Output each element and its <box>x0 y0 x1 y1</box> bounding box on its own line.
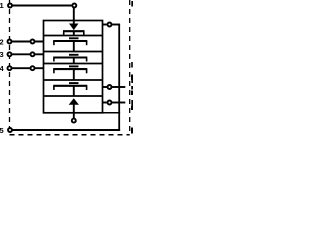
ground pad circle below die <box>72 119 76 123</box>
wire stub pin7 <box>103 86 108 88</box>
pin 4 terminal <box>8 66 12 70</box>
package dashed border bottom <box>10 134 130 136</box>
wire pin5 bottom <box>13 129 121 131</box>
wire pin3 <box>12 53 44 55</box>
diode D5 cell5 plate <box>53 83 87 96</box>
wire right bus vertical <box>118 25 120 131</box>
node bond pad pin3 <box>31 52 35 56</box>
wire pin2 <box>12 41 44 43</box>
die row divider 1 <box>44 35 103 37</box>
wire stub pin8 <box>103 24 108 26</box>
wire stub pin6 <box>103 102 108 104</box>
package dashed border left <box>9 0 11 135</box>
node bond pad pin2 <box>31 40 35 44</box>
die row divider 4 <box>44 79 103 81</box>
node bond pad pin8 <box>108 23 112 27</box>
wire ground rail to bus <box>103 112 121 114</box>
die row divider 2 <box>44 51 103 53</box>
node bond pad pin4 <box>31 66 35 70</box>
node bond pad pin6 <box>108 101 112 105</box>
diode D4 cell4 plate <box>53 66 87 80</box>
diode D3 cell3 plate <box>53 55 87 64</box>
wire pin1 top <box>13 4 72 6</box>
wire pin4 <box>12 67 44 69</box>
wire pin8 to bus <box>112 24 120 26</box>
svg-text:1: 1 <box>0 1 4 10</box>
diode D1 cell1 arrow down <box>63 24 85 36</box>
pin 1 terminal <box>8 4 12 8</box>
svg-text:5: 5 <box>0 126 4 135</box>
node bond pad pin7 <box>108 85 112 89</box>
wire pin6 to bus <box>112 102 125 104</box>
die box outline <box>44 21 103 113</box>
pin 3 terminal <box>8 52 12 56</box>
wire pin7 to bus <box>112 86 125 88</box>
package dashed border right <box>129 0 131 135</box>
wire top stem into die <box>73 8 75 24</box>
svg-text:2: 2 <box>0 37 4 46</box>
pin 2 terminal <box>8 40 12 44</box>
cut-off text fragments right edge <box>131 1 133 134</box>
diode D6 cell6 arrow up <box>69 98 79 118</box>
die row divider 5 <box>44 95 103 97</box>
pin 5 terminal <box>8 128 12 132</box>
diode D2 cell2 plate <box>53 38 87 51</box>
die row divider 3 <box>44 63 103 65</box>
svg-text:3: 3 <box>0 50 4 59</box>
node bond pad top <box>72 4 76 8</box>
